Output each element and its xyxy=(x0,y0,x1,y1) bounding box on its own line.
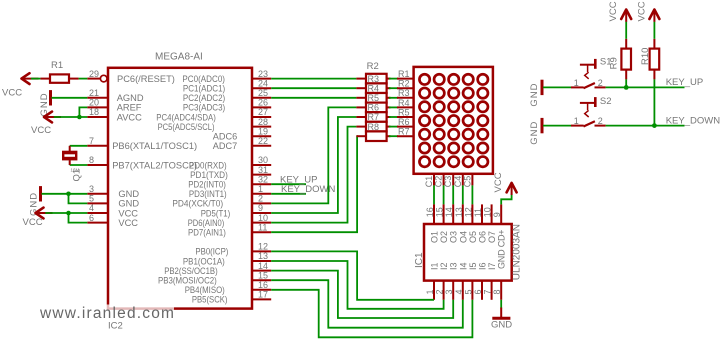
svg-text:VCC: VCC xyxy=(608,1,619,21)
IC2 pin 26 PC3(ADC3) xyxy=(183,98,271,113)
resistor R2 element 6 xyxy=(356,122,390,132)
svg-text:VCC: VCC xyxy=(493,172,504,192)
svg-text:I4: I4 xyxy=(458,262,468,270)
junction node KEY_UP / R9 xyxy=(624,85,629,90)
IC2 pin 21 AGND xyxy=(87,88,144,103)
svg-text:16: 16 xyxy=(258,280,268,290)
wire net VCC to pin 4 xyxy=(45,212,87,214)
wire net COL5: matrix to ULN pin 12 xyxy=(471,185,473,204)
svg-text:GND: GND xyxy=(118,199,139,209)
wire net ROW1: IC2 to R2 xyxy=(271,78,356,80)
IC2 pin 24 PC1(ADC1) xyxy=(183,78,271,93)
svg-text:17: 17 xyxy=(258,290,268,300)
IC U-IC2 MEGA8-AI body xyxy=(108,52,252,332)
wire net VCC branch to pin 6 xyxy=(69,213,88,223)
matrix pin C5 xyxy=(462,174,472,188)
junction node VCC pins 4/6 xyxy=(66,211,71,216)
svg-text:ULN2003AN: ULN2003AN xyxy=(512,224,523,280)
svg-text:4: 4 xyxy=(454,289,464,294)
IC1 pin 10 O7 xyxy=(483,204,498,243)
IC2 pin 29 PC6(/RESET) xyxy=(87,69,175,84)
resistor R2 element 5 xyxy=(356,112,390,122)
wire net XTAL1: crystal to pin 7 xyxy=(70,145,88,147)
IC2 pin 14 PB2(SS/OC1B) xyxy=(164,261,271,276)
wire net GND: ULN pin 8 down xyxy=(500,300,502,309)
matrix pin R5 xyxy=(389,107,414,117)
svg-text:8: 8 xyxy=(492,289,502,294)
IC1 pin 6 I6 xyxy=(473,262,488,299)
svg-text:R3: R3 xyxy=(398,88,410,98)
svg-text:I1: I1 xyxy=(430,262,440,270)
svg-text:PC2(ADC2): PC2(ADC2) xyxy=(183,93,225,103)
svg-text:VCC: VCC xyxy=(636,1,647,21)
svg-text:26: 26 xyxy=(258,98,268,108)
svg-text:5: 5 xyxy=(463,289,473,294)
wire net KEY_DOWN: R10 lower lead xyxy=(653,70,655,80)
wire net AVCC: junction up to AREF pin 20 xyxy=(79,107,87,117)
power VCC symbol (R9) xyxy=(608,1,631,21)
svg-text:31: 31 xyxy=(258,165,268,175)
svg-text:VCC: VCC xyxy=(118,218,138,228)
svg-text:KEY_DOWN: KEY_DOWN xyxy=(281,184,336,195)
svg-text:4: 4 xyxy=(89,203,94,213)
svg-text:R4: R4 xyxy=(398,98,410,108)
svg-text:14: 14 xyxy=(444,207,454,217)
matrix pin C4 xyxy=(453,174,463,188)
svg-text:PC6(/RESET): PC6(/RESET) xyxy=(117,74,175,84)
IC1 pin 13 O4 xyxy=(454,204,469,243)
svg-text:GND: GND xyxy=(529,121,540,145)
svg-text:PC5(ADC5/SCL): PC5(ADC5/SCL) xyxy=(158,122,215,132)
svg-text:PB0(ICP): PB0(ICP) xyxy=(195,247,228,257)
svg-text:2: 2 xyxy=(598,116,603,126)
ground GND symbol (ULN pin 8) xyxy=(491,308,512,331)
svg-text:8: 8 xyxy=(89,155,94,165)
svg-text:R6: R6 xyxy=(368,103,380,113)
svg-text:16: 16 xyxy=(425,207,435,217)
svg-text:I2: I2 xyxy=(439,262,449,270)
svg-text:I7: I7 xyxy=(487,262,497,270)
IC1 pin 14 O3 xyxy=(444,204,459,243)
IC1 pin 2 I2 xyxy=(435,262,450,299)
ground GND symbol (S2) xyxy=(529,118,542,145)
svg-text:R7: R7 xyxy=(368,112,380,122)
svg-text:IC2: IC2 xyxy=(108,321,123,332)
svg-text:O7: O7 xyxy=(487,231,497,243)
svg-text:PC0(ADC0): PC0(ADC0) xyxy=(182,74,225,84)
svg-text:R7: R7 xyxy=(398,127,410,137)
matrix pin C3 xyxy=(443,174,453,188)
svg-text:I6: I6 xyxy=(478,262,488,270)
wire net VCC: R10 upper lead xyxy=(653,39,655,49)
svg-text:PB6(XTAL1/TOSC1): PB6(XTAL1/TOSC1) xyxy=(112,141,197,151)
wire net AVCC: VCC arrow to pin 18 xyxy=(54,116,88,118)
svg-text:PC4(ADC4/SDA): PC4(ADC4/SDA) xyxy=(156,112,216,122)
svg-text:O1: O1 xyxy=(430,231,440,243)
svg-text:R10: R10 xyxy=(640,48,651,65)
IC2 pin 16 PB4(MISO) xyxy=(185,280,272,295)
IC2 pin 5 GND xyxy=(87,194,139,209)
ground GND symbol (pins 3/5) xyxy=(28,186,40,216)
wire net RESET: R1 to IC2 pin 29 xyxy=(69,78,79,80)
wire net GND to S2 pin 1 xyxy=(543,125,571,127)
matrix pin C1 xyxy=(424,174,434,188)
svg-text:12: 12 xyxy=(463,207,473,217)
resistor R2 element 7 xyxy=(356,131,390,141)
svg-text:C1: C1 xyxy=(424,176,434,188)
svg-text:28: 28 xyxy=(258,117,268,127)
power VCC symbol (ULN pin 9) xyxy=(493,172,517,195)
svg-text:AREF: AREF xyxy=(117,103,142,113)
svg-text:PD0(RXD): PD0(RXD) xyxy=(189,160,227,170)
svg-text:24: 24 xyxy=(258,78,268,88)
matrix pin R6 xyxy=(389,117,414,127)
IC2 pin 1 PD3(INT1) xyxy=(189,184,271,199)
wire net GND branch to pin 5 xyxy=(69,194,88,204)
svg-text:MEGA8-AI: MEGA8-AI xyxy=(155,52,203,63)
svg-text:PB3(MOSI/OC2): PB3(MOSI/OC2) xyxy=(158,276,217,286)
svg-text:2: 2 xyxy=(598,78,603,88)
IC2 pin 7 PB6(XTAL1/TOSC1) xyxy=(87,136,197,151)
IC2 pin 28 PC5(ADC5/SCL) xyxy=(158,117,272,132)
power VCC symbol (AVCC) xyxy=(31,112,61,137)
svg-text:R5: R5 xyxy=(398,107,410,117)
svg-text:GND: GND xyxy=(118,189,139,199)
IC2 pin 23 PC0(ADC0) xyxy=(182,69,271,84)
crystal Q1 xyxy=(62,146,82,182)
IC U-IC1 ULN2003AN body xyxy=(414,224,523,281)
IC2 pin 19 ADC6 xyxy=(213,126,271,141)
matrix pin R7 xyxy=(389,127,414,137)
svg-text:R6: R6 xyxy=(398,117,410,127)
svg-text:ADC7: ADC7 xyxy=(213,141,238,151)
IC1 pin 12 O5 xyxy=(463,204,478,243)
svg-text:GND: GND xyxy=(491,320,512,331)
wire net ROW7: IC2 row to R2 via vertical x=357.1 xyxy=(271,136,357,232)
svg-text:R4: R4 xyxy=(368,83,380,93)
resistor R2 element 1 xyxy=(356,74,390,84)
resistor R1 xyxy=(50,60,69,83)
svg-text:O3: O3 xyxy=(449,231,459,243)
junction node GND pins 3/5 xyxy=(66,192,71,197)
svg-text:1: 1 xyxy=(574,78,579,88)
svg-text:ADC6: ADC6 xyxy=(213,132,238,142)
IC2 pin 20 AREF xyxy=(87,98,142,113)
svg-text:PD3(INT1): PD3(INT1) xyxy=(189,189,227,199)
wire net GND to S1 pin 1 xyxy=(543,86,571,88)
wire net ROW6: IC2 row to R2 via vertical x=347.5 xyxy=(271,127,356,223)
matrix pin R2 xyxy=(389,79,414,89)
svg-text:15: 15 xyxy=(258,270,268,280)
wire net ROW3: IC2 to R2 xyxy=(271,97,356,99)
svg-text:19: 19 xyxy=(258,126,268,136)
svg-text:30: 30 xyxy=(258,155,268,165)
svg-text:R2: R2 xyxy=(367,61,379,72)
svg-text:12: 12 xyxy=(258,242,268,252)
IC2 pin 22 ADC7 xyxy=(213,136,271,151)
svg-text:10: 10 xyxy=(258,213,268,223)
svg-text:27: 27 xyxy=(258,107,268,117)
IC2 pin 6 VCC xyxy=(87,213,138,228)
IC2 pin 8 PB7(XTAL2/TOSC2) xyxy=(87,155,197,170)
svg-text:I3: I3 xyxy=(449,262,459,270)
wire net ROW5: IC2 row to R2 via vertical x=337.9 xyxy=(271,117,356,213)
matrix pin R4 xyxy=(389,98,414,108)
svg-text:21: 21 xyxy=(89,88,99,98)
watermark www.iranled.com xyxy=(38,305,175,323)
IC1 pin 15 O2 xyxy=(435,204,450,243)
svg-text:25: 25 xyxy=(258,88,268,98)
svg-text:VCC: VCC xyxy=(23,217,43,228)
svg-text:PD2(INT0): PD2(INT0) xyxy=(188,180,226,190)
svg-text:S2: S2 xyxy=(600,96,612,107)
wire net COL3: matrix to ULN pin 14 xyxy=(452,185,454,204)
switch S2 xyxy=(571,96,612,127)
wire net COL4: matrix to ULN pin 13 xyxy=(462,185,464,204)
wire net IC2 PB to ULN pin 5 xyxy=(271,290,472,338)
svg-text:18: 18 xyxy=(89,107,99,117)
wire net COL2: matrix to ULN pin 15 xyxy=(443,185,445,204)
svg-text:2: 2 xyxy=(258,194,263,204)
svg-text:R2: R2 xyxy=(398,79,410,89)
svg-text:29: 29 xyxy=(89,69,99,79)
svg-text:6: 6 xyxy=(89,213,94,223)
svg-text:11: 11 xyxy=(473,208,483,217)
svg-text:AVCC: AVCC xyxy=(117,112,142,122)
svg-text:PB7(XTAL2/TOSC2): PB7(XTAL2/TOSC2) xyxy=(112,160,197,170)
svg-text:GND: GND xyxy=(529,82,540,106)
svg-text:PC3(ADC3): PC3(ADC3) xyxy=(183,103,225,113)
IC2 pin 31 PD1(TXD) xyxy=(190,165,271,180)
IC2 pin 17 PB5(SCK) xyxy=(192,290,271,305)
svg-text:O5: O5 xyxy=(468,231,478,243)
IC2 pin 4 VCC xyxy=(87,203,138,218)
svg-text:IC1: IC1 xyxy=(414,252,425,268)
wire net IC2 PB to ULN pin 3 xyxy=(271,271,453,318)
wire net ROW4: IC2 row to R2 via vertical x=328.3 xyxy=(271,107,356,203)
svg-text:C5: C5 xyxy=(462,176,472,188)
IC1 pin 7 I7 xyxy=(483,262,498,299)
svg-text:PB1(OC1A): PB1(OC1A) xyxy=(183,256,225,266)
matrix pin R3 xyxy=(389,88,414,98)
svg-text:2: 2 xyxy=(435,289,445,294)
IC2 pin 10 PD6(AIN0) xyxy=(188,213,272,228)
svg-text:6: 6 xyxy=(473,289,483,294)
svg-text:KEY_UP: KEY_UP xyxy=(666,77,704,88)
svg-text:R1: R1 xyxy=(51,60,63,71)
matrix pin R1 xyxy=(389,69,414,79)
wire net COL1: matrix to ULN pin 16 xyxy=(433,185,435,204)
power VCC symbol (reset pull-up) xyxy=(2,73,39,98)
svg-text:PD5(T1): PD5(T1) xyxy=(201,208,231,218)
resistor R9 xyxy=(608,49,631,70)
svg-text:R3: R3 xyxy=(368,74,380,84)
IC1 pin 9 GND CD+ xyxy=(492,204,502,224)
svg-text:13: 13 xyxy=(454,207,464,217)
svg-text:VCC: VCC xyxy=(118,208,138,218)
svg-text:20: 20 xyxy=(89,98,99,108)
IC1 pin 11 O6 xyxy=(473,204,488,243)
IC2 pin 15 PB3(MOSI/OC2) xyxy=(158,270,271,285)
wire net KEY_DOWN: S2 pin 2 to label xyxy=(606,125,685,127)
svg-text:3: 3 xyxy=(444,289,454,294)
wire net GND: bar to IC2 pin 21 xyxy=(52,97,88,99)
svg-text:O2: O2 xyxy=(439,231,449,243)
svg-text:1: 1 xyxy=(258,184,263,194)
IC2 pin 11 PD7(AIN1) xyxy=(188,222,271,237)
svg-text:www.iranled.com: www.iranled.com xyxy=(39,305,175,322)
wire net KEY_UP at IC2 pin 32 xyxy=(271,183,306,185)
svg-text:C4: C4 xyxy=(453,176,463,188)
wire net KEY_UP: S1 pin 2 to label xyxy=(606,86,685,88)
IC1 pin 4 I4 xyxy=(454,262,469,299)
svg-text:15: 15 xyxy=(435,207,445,217)
IC1 pin 8 xyxy=(492,281,502,300)
ground GND symbol (S1) xyxy=(529,80,542,107)
wire net IC2 PB to ULN pin 2 xyxy=(271,261,443,309)
svg-text:VCC: VCC xyxy=(31,125,51,136)
IC2 pin 32 PD2(INT0) xyxy=(188,174,271,189)
wire net KEY_DOWN at IC2 pin 1 xyxy=(271,193,306,195)
svg-text:PD7(AIN1): PD7(AIN1) xyxy=(188,228,226,238)
svg-text:C2: C2 xyxy=(434,176,444,188)
svg-text:R9: R9 xyxy=(608,57,619,69)
svg-text:KEY_DOWN: KEY_DOWN xyxy=(666,115,720,126)
wire net VCC: ULN pin 9 to VCC arrow xyxy=(501,195,511,205)
svg-text:32: 32 xyxy=(258,174,268,184)
svg-text:R5: R5 xyxy=(368,93,380,103)
svg-text:PB4(MISO): PB4(MISO) xyxy=(185,285,225,295)
svg-text:22: 22 xyxy=(258,136,268,146)
resistor R2 element 4 xyxy=(356,103,390,113)
power VCC symbol (R10) xyxy=(636,1,659,21)
IC2 pin 13 PB1(OC1A) xyxy=(183,251,271,266)
wire net IC2 PB to ULN pin 4 xyxy=(271,280,463,328)
IC2 pin 25 PC2(ADC2) xyxy=(183,88,271,103)
svg-text:10: 10 xyxy=(483,207,493,217)
IC2 pin 18 AVCC xyxy=(87,107,142,122)
junction node AVCC/AREF xyxy=(77,115,82,120)
svg-text:5: 5 xyxy=(89,194,94,204)
svg-text:Q1: Q1 xyxy=(71,169,82,182)
LED dot-matrix display body xyxy=(414,67,493,174)
svg-text:1: 1 xyxy=(425,289,435,294)
LED matrix dots 5x7 xyxy=(419,74,487,167)
IC1 pin 16 O1 xyxy=(425,204,440,243)
IC2 pin 2 PD4(XCK/T0) xyxy=(172,194,271,209)
svg-text:PC1(ADC1): PC1(ADC1) xyxy=(183,84,225,94)
svg-text:GND CD+: GND CD+ xyxy=(497,230,507,269)
wire net ROW2: IC2 to R2 xyxy=(271,87,356,89)
wire net VCC: R9 upper lead xyxy=(625,39,627,49)
svg-text:PD4(XCK/T0): PD4(XCK/T0) xyxy=(172,199,223,209)
svg-text:14: 14 xyxy=(258,261,268,271)
svg-text:R1: R1 xyxy=(398,69,410,79)
resistor R10 xyxy=(640,48,659,70)
svg-text:O4: O4 xyxy=(458,231,468,243)
wire net KEY_UP: R9 lower lead xyxy=(625,70,627,80)
svg-text:7: 7 xyxy=(89,136,94,146)
svg-text:13: 13 xyxy=(258,251,268,261)
svg-text:I5: I5 xyxy=(468,262,478,270)
matrix pin C2 xyxy=(434,174,444,188)
svg-text:VCC: VCC xyxy=(2,87,22,98)
svg-text:3: 3 xyxy=(89,184,94,194)
IC1 pin 5 I5 xyxy=(463,262,478,299)
svg-text:7: 7 xyxy=(483,289,493,294)
svg-text:C3: C3 xyxy=(443,176,453,188)
svg-text:23: 23 xyxy=(258,69,268,79)
wire net GND to pin 3 xyxy=(42,193,88,195)
svg-text:PD1(TXD): PD1(TXD) xyxy=(190,170,228,180)
svg-text:11: 11 xyxy=(258,222,267,232)
junction node KEY_DOWN / R10 xyxy=(652,123,657,128)
IC2 pin 12 PB0(ICP) xyxy=(195,242,271,257)
resistor R2 element 3 xyxy=(356,93,390,103)
IC1 pin 3 I3 xyxy=(444,262,459,299)
IC2 pin 30 PD0(RXD) xyxy=(189,155,271,170)
wire net IC2 PB to ULN pin 1 xyxy=(271,251,434,299)
switch S1 xyxy=(571,56,612,88)
IC2 pin 9 PD5(T1) xyxy=(201,203,272,218)
svg-text:PB2(SS/OC1B): PB2(SS/OC1B) xyxy=(164,266,218,276)
svg-text:AGND: AGND xyxy=(117,93,144,103)
svg-text:9: 9 xyxy=(492,212,502,217)
svg-text:1: 1 xyxy=(574,116,579,126)
wire net XTAL2: crystal to pin 8 xyxy=(70,164,88,166)
IC2 pin 3 GND xyxy=(87,184,139,199)
IC2 pin 27 PC4(ADC4/SDA) xyxy=(156,107,271,122)
svg-text:PD6(AIN0): PD6(AIN0) xyxy=(188,218,225,228)
svg-text:9: 9 xyxy=(258,203,263,213)
resistor R2 element 2 xyxy=(356,83,390,93)
wire net VCC to R1 xyxy=(31,78,40,80)
svg-text:O6: O6 xyxy=(478,231,488,243)
power VCC symbol (pins 4/6) xyxy=(23,208,53,228)
IC1 pin 1 I1 xyxy=(425,262,440,299)
svg-text:PB5(SCK): PB5(SCK) xyxy=(192,295,228,305)
ground GND symbol (AGND) xyxy=(39,90,51,116)
